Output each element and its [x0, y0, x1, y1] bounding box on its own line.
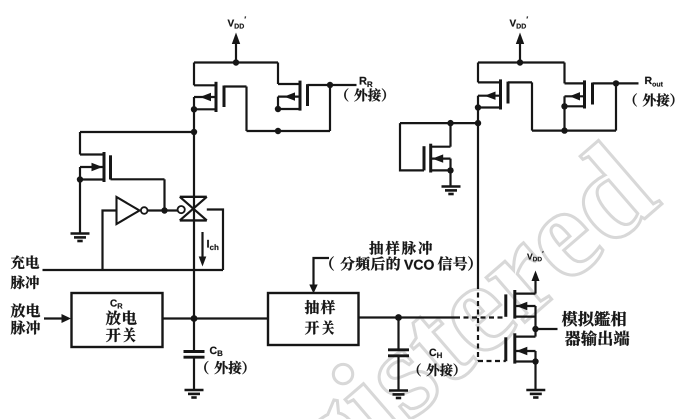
wire: main column through TG down to discharge node: [193, 132, 195, 319]
wire: M3 source to ground: [79, 180, 81, 234]
ground (M9): [526, 390, 545, 398]
label discharge switch line2: [106, 328, 135, 343]
label (external) for RR: [344, 88, 386, 101]
wire: M7 source to ground: [449, 170, 451, 186]
wire: Rout node down to right gate rail: [615, 83, 617, 130]
wire: left horizontal rail to M3: [80, 131, 194, 133]
node: CB junction: [191, 315, 198, 322]
label CB: [210, 347, 223, 356]
wire: discharge switch to sampling switch: [163, 317, 269, 319]
node: M7 drain junction: [447, 120, 453, 126]
node: bias column junction: [475, 120, 481, 126]
wire: inverter output to transmission gate: [148, 209, 178, 211]
power arrow VDD (left): [232, 33, 240, 64]
label analog phase detector output line1: [562, 311, 626, 326]
transistor M7 (diode-connected NMOS): [400, 123, 454, 173]
power arrow VDD (right): [516, 33, 524, 64]
label CH: [429, 349, 441, 358]
wire: sampling switch output: [359, 316, 506, 318]
label sampling switch line2: [305, 320, 334, 334]
label CR: [110, 300, 122, 309]
wire: M9 source to ground: [534, 362, 536, 390]
label (external) for CB: [204, 361, 246, 374]
label (divided VCO signal): [329, 256, 400, 270]
transistor M5 (right mirror, left PMOS): [475, 63, 532, 131]
node: M6 source on gate rail: [561, 127, 567, 133]
current arrow Ich: [199, 232, 207, 267]
transistor M1 (left mirror, left PMOS): [191, 63, 247, 132]
label Ich: [207, 240, 218, 250]
label charge-pulse line2: [11, 276, 39, 290]
transistor M3 (NMOS near inverter): [77, 132, 165, 211]
label (external) for CH: [417, 363, 458, 376]
transmission gate TG1: [178, 197, 207, 221]
node: follower output: [532, 326, 538, 332]
wire: M1 source drop: [193, 109, 195, 132]
node: main column junction: [191, 129, 197, 135]
label charge-pulse line1: [11, 255, 39, 269]
node: CH junction: [395, 314, 402, 321]
power label VDD' (right): [510, 16, 528, 28]
wire: charge pulse line: [43, 269, 224, 271]
label discharge-pulse line2: [11, 320, 40, 334]
transistor M6 (right mirror, right PMOS): [561, 63, 616, 131]
wire: analog phase detector output: [536, 328, 558, 330]
wire: output node down to M9: [534, 329, 536, 337]
ground (M7): [442, 187, 461, 195]
wire: TG control loop (right side): [207, 210, 223, 271]
block: sampling switch: [268, 293, 359, 345]
wire: left VDD rail: [194, 61, 278, 63]
wire: bias node horizontal: [400, 122, 478, 124]
ground (CH): [389, 391, 408, 399]
power arrow VDD (follower): [532, 271, 540, 294]
label sampling pulse: [369, 241, 432, 255]
wire: left gate rail: [247, 130, 331, 132]
label discharge-pulse line1: [11, 303, 40, 317]
label discharge switch line1: [106, 311, 137, 326]
node: VDD tap (left): [233, 59, 239, 65]
node: inverter output / M3 gate: [161, 207, 167, 213]
power label VDD' (follower): [527, 251, 544, 261]
transistor M9 (follower lower): [506, 333, 539, 364]
ground (CB): [185, 390, 204, 398]
wire: right gate rail: [532, 130, 616, 132]
label Rout: [645, 77, 663, 87]
arrow: discharge pulse into switch: [44, 314, 71, 323]
wire: M5 source down to bias node: [477, 108, 479, 124]
arrow: sampling pulse into switch: [309, 258, 329, 294]
capacitor CB (external): [184, 319, 205, 390]
wire: bias line down to follower: [478, 123, 506, 361]
node: RR terminal junction: [327, 82, 333, 88]
label (external) for Rout: [633, 93, 675, 106]
node: M2 source on gate rail: [275, 128, 281, 134]
wire: RR node down to gate rail: [329, 85, 331, 131]
label sampling switch line1: [305, 300, 335, 314]
inverter U1: [117, 197, 148, 224]
wire: to external Rout resistor: [616, 82, 639, 84]
ground (M3): [71, 234, 90, 242]
block: discharge switch (CR): [72, 293, 163, 347]
node: VDD tap (right): [517, 59, 523, 65]
capacitor CH (external): [388, 318, 409, 391]
wire: to external RR resistor: [330, 84, 357, 86]
wire: inverter input: [103, 211, 117, 271]
label analog phase detector output line2: [565, 330, 629, 345]
node: Rout terminal junction: [613, 80, 619, 86]
transistor M8 (follower upper): [506, 290, 536, 329]
label RR: [360, 77, 373, 87]
watermark "Registered": [162, 136, 678, 419]
power label VDD' (left): [228, 16, 246, 28]
wire: right VDD rail: [478, 61, 565, 63]
transistor M2 (left mirror, right PMOS): [275, 63, 330, 113]
